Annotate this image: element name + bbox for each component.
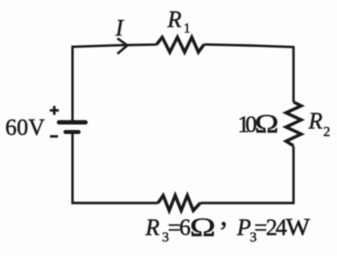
svg-text:60V: 60V bbox=[5, 115, 45, 140]
svg-text:2: 2 bbox=[323, 125, 330, 140]
svg-text:Ω: Ω bbox=[190, 213, 216, 242]
svg-text:R: R bbox=[167, 7, 182, 32]
svg-text:Ω: Ω bbox=[255, 110, 279, 138]
svg-text:P: P bbox=[236, 215, 251, 240]
svg-text:R: R bbox=[145, 215, 160, 240]
svg-text:,: , bbox=[220, 199, 228, 232]
svg-text:W: W bbox=[286, 215, 311, 241]
svg-text:1: 1 bbox=[184, 22, 191, 37]
svg-text:I: I bbox=[115, 15, 125, 40]
svg-text:R: R bbox=[308, 108, 323, 133]
